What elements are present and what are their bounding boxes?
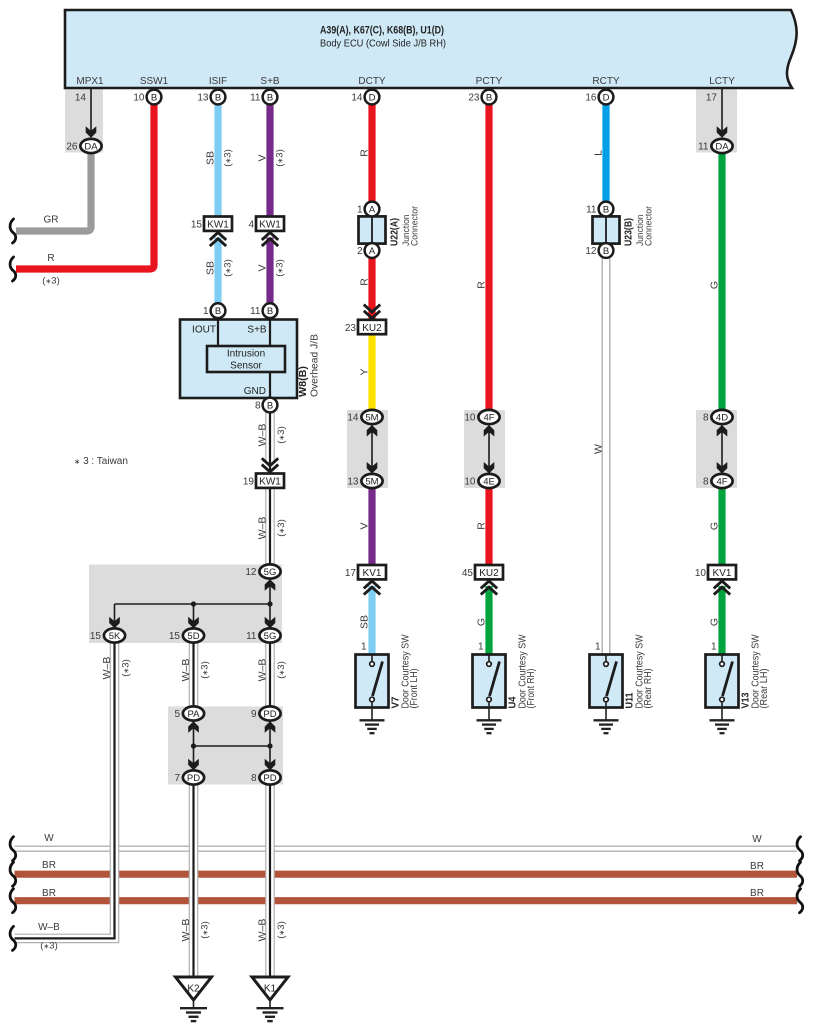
svg-text:U23(B): U23(B) — [623, 218, 635, 246]
svg-text:14: 14 — [75, 93, 87, 104]
svg-text:17: 17 — [706, 93, 718, 104]
svg-text:4E: 4E — [483, 476, 495, 487]
svg-text:PA: PA — [188, 709, 201, 720]
svg-text:MPX1: MPX1 — [76, 76, 104, 87]
svg-text:5K: 5K — [109, 631, 121, 642]
svg-text:Connector: Connector — [410, 206, 421, 246]
svg-text:D: D — [369, 92, 376, 103]
svg-text:10: 10 — [695, 568, 707, 579]
svg-text:9: 9 — [251, 709, 257, 720]
svg-text:45: 45 — [462, 568, 474, 579]
svg-text:GR: GR — [44, 215, 59, 226]
svg-text:26: 26 — [66, 142, 78, 153]
svg-text:G: G — [476, 618, 488, 626]
svg-text:BR: BR — [42, 888, 56, 899]
svg-text:W–B: W–B — [101, 657, 113, 680]
svg-text:SSW1: SSW1 — [140, 76, 169, 87]
svg-text:B: B — [215, 92, 221, 103]
svg-text:D: D — [603, 92, 610, 103]
svg-text:8: 8 — [251, 773, 257, 784]
svg-text:(∗3): (∗3) — [275, 149, 286, 167]
svg-text:11: 11 — [250, 306, 261, 317]
svg-text:K1: K1 — [264, 984, 277, 995]
svg-text:BR: BR — [42, 860, 56, 871]
svg-text:B: B — [267, 400, 273, 411]
svg-text:B: B — [603, 204, 609, 215]
svg-text:5G: 5G — [264, 567, 277, 578]
svg-text:W: W — [593, 444, 605, 454]
svg-text:Y: Y — [359, 368, 371, 375]
svg-text:U11: U11 — [623, 692, 635, 708]
svg-text:10: 10 — [133, 93, 145, 104]
svg-text:G: G — [709, 281, 721, 289]
svg-text:PD: PD — [263, 773, 276, 784]
svg-text:1: 1 — [478, 642, 484, 653]
svg-text:(∗3): (∗3) — [276, 519, 287, 537]
svg-text:W: W — [752, 834, 762, 845]
svg-text:16: 16 — [585, 93, 597, 104]
svg-text:(∗3): (∗3) — [275, 259, 286, 277]
svg-text:R: R — [359, 149, 371, 157]
svg-text:ISIF: ISIF — [209, 76, 227, 87]
svg-text:13: 13 — [347, 477, 359, 488]
svg-text:KV1: KV1 — [363, 568, 382, 579]
svg-text:5M: 5M — [365, 476, 378, 487]
svg-text:A39(A), K67(C), K68(B), U1(D): A39(A), K67(C), K68(B), U1(D) — [320, 25, 444, 37]
svg-text:8: 8 — [703, 477, 709, 488]
svg-text:RCTY: RCTY — [592, 76, 620, 87]
svg-text:S+B: S+B — [260, 76, 280, 87]
svg-text:14: 14 — [351, 93, 363, 104]
svg-text:12: 12 — [245, 567, 257, 578]
svg-text:W–B: W–B — [257, 424, 269, 447]
svg-text:A: A — [369, 204, 376, 215]
svg-text:7: 7 — [174, 773, 180, 784]
svg-text:V: V — [359, 522, 371, 529]
svg-text:W–B: W–B — [257, 919, 269, 942]
svg-text:10: 10 — [464, 477, 476, 488]
svg-text:GND: GND — [244, 386, 266, 397]
svg-text:∗ 3 : Taiwan: ∗ 3 : Taiwan — [74, 456, 128, 467]
svg-text:12: 12 — [585, 246, 597, 257]
svg-text:PD: PD — [263, 709, 276, 720]
svg-text:(∗3): (∗3) — [223, 149, 234, 167]
svg-text:15: 15 — [90, 631, 102, 642]
svg-text:DCTY: DCTY — [358, 76, 386, 87]
svg-text:1: 1 — [711, 642, 717, 653]
svg-text:(Front LH): (Front LH) — [409, 669, 420, 709]
svg-text:15: 15 — [191, 220, 203, 231]
svg-text:Connector: Connector — [644, 206, 655, 246]
svg-text:V7: V7 — [389, 696, 401, 708]
svg-text:5M: 5M — [365, 412, 378, 423]
svg-text:W–B: W–B — [257, 517, 269, 540]
svg-text:A: A — [369, 246, 376, 257]
svg-text:KW1: KW1 — [259, 220, 281, 231]
svg-text:PD: PD — [187, 773, 200, 784]
svg-text:SB: SB — [205, 151, 217, 165]
svg-text:4F: 4F — [483, 412, 494, 423]
svg-text:BR: BR — [750, 888, 764, 899]
svg-text:23: 23 — [468, 93, 480, 104]
svg-text:11: 11 — [586, 205, 597, 216]
svg-text:R: R — [47, 253, 54, 264]
svg-text:5: 5 — [174, 709, 180, 720]
svg-text:(∗3): (∗3) — [276, 921, 287, 939]
svg-text:4F: 4F — [716, 476, 727, 487]
svg-text:K2: K2 — [187, 984, 200, 995]
svg-text:R: R — [476, 281, 488, 289]
svg-text:11: 11 — [250, 93, 261, 104]
svg-text:8: 8 — [255, 401, 261, 412]
svg-text:(∗3): (∗3) — [42, 276, 60, 287]
svg-text:W–B: W–B — [257, 659, 269, 682]
svg-text:U4: U4 — [506, 696, 518, 708]
svg-text:G: G — [709, 522, 721, 530]
svg-text:R: R — [359, 278, 371, 286]
svg-text:5G: 5G — [264, 631, 277, 642]
svg-text:(∗3): (∗3) — [121, 659, 132, 677]
svg-text:Intrusion: Intrusion — [227, 349, 265, 360]
svg-text:B: B — [215, 306, 221, 317]
svg-text:L: L — [593, 150, 605, 156]
svg-text:KU2: KU2 — [362, 323, 382, 334]
svg-text:5D: 5D — [187, 631, 199, 642]
svg-text:G: G — [709, 618, 721, 626]
svg-text:11: 11 — [698, 142, 709, 153]
svg-text:V13: V13 — [739, 692, 751, 708]
svg-text:KV1: KV1 — [713, 568, 732, 579]
svg-text:S+B: S+B — [247, 325, 267, 336]
svg-text:V: V — [257, 264, 269, 271]
svg-text:4D: 4D — [716, 412, 728, 423]
svg-text:17: 17 — [345, 568, 357, 579]
svg-text:(∗3): (∗3) — [200, 661, 211, 679]
svg-text:U22(A): U22(A) — [389, 218, 401, 246]
svg-text:B: B — [267, 92, 273, 103]
svg-text:10: 10 — [464, 413, 476, 424]
svg-text:19: 19 — [243, 477, 255, 488]
svg-text:11: 11 — [246, 631, 257, 642]
svg-text:W: W — [44, 833, 54, 844]
svg-text:(∗3): (∗3) — [200, 921, 211, 939]
svg-text:LCTY: LCTY — [709, 76, 735, 87]
svg-text:W–B: W–B — [180, 659, 192, 682]
svg-text:KW1: KW1 — [259, 477, 281, 488]
svg-text:KU2: KU2 — [479, 568, 499, 579]
svg-text:(Rear LH): (Rear LH) — [759, 669, 770, 709]
svg-text:(Front RH): (Front RH) — [526, 669, 537, 709]
svg-text:KW1: KW1 — [207, 220, 229, 231]
svg-text:PCTY: PCTY — [476, 76, 503, 87]
svg-text:W–B: W–B — [180, 919, 192, 942]
svg-text:1: 1 — [361, 642, 367, 653]
svg-text:Body ECU (Cowl Side J/B RH): Body ECU (Cowl Side J/B RH) — [320, 38, 446, 50]
svg-text:B: B — [603, 246, 609, 257]
svg-text:W–B: W–B — [38, 922, 60, 933]
svg-text:4: 4 — [248, 220, 254, 231]
svg-text:(∗3): (∗3) — [40, 941, 58, 952]
svg-text:B: B — [267, 306, 273, 317]
svg-text:SB: SB — [205, 261, 217, 275]
svg-text:IOUT: IOUT — [192, 325, 216, 336]
svg-text:Sensor: Sensor — [230, 361, 262, 372]
svg-text:8: 8 — [703, 413, 709, 424]
svg-text:DA: DA — [84, 141, 98, 152]
svg-text:(∗3): (∗3) — [276, 661, 287, 679]
svg-text:14: 14 — [347, 413, 359, 424]
svg-text:B: B — [486, 92, 492, 103]
svg-text:23: 23 — [345, 323, 357, 334]
svg-text:(∗3): (∗3) — [276, 426, 287, 444]
svg-text:SB: SB — [359, 615, 371, 629]
svg-text:13: 13 — [197, 93, 209, 104]
svg-text:(Rear RH): (Rear RH) — [643, 669, 654, 709]
svg-text:15: 15 — [169, 631, 181, 642]
svg-text:DA: DA — [715, 141, 729, 152]
svg-text:1: 1 — [595, 642, 601, 653]
svg-text:(∗3): (∗3) — [223, 259, 234, 277]
svg-text:1: 1 — [357, 205, 363, 216]
svg-text:B: B — [151, 92, 157, 103]
svg-text:Overhead J/B: Overhead J/B — [310, 334, 321, 397]
svg-text:W8(B): W8(B) — [297, 366, 309, 397]
svg-text:1: 1 — [203, 306, 209, 317]
svg-text:V: V — [257, 154, 269, 161]
svg-text:2: 2 — [357, 246, 363, 257]
svg-text:R: R — [476, 522, 488, 530]
svg-text:BR: BR — [750, 861, 764, 872]
